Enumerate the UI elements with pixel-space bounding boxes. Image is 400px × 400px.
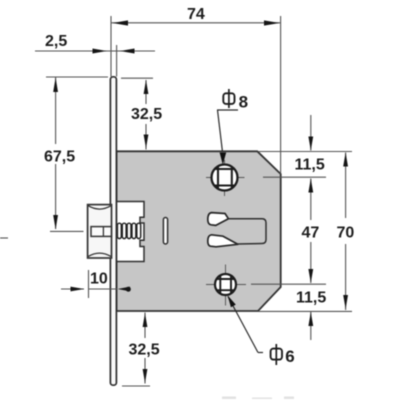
svg-text:6: 6 — [285, 347, 294, 366]
svg-text:67,5: 67,5 — [44, 149, 75, 166]
svg-text:32,5: 32,5 — [131, 106, 162, 123]
svg-text:32,5: 32,5 — [129, 342, 160, 359]
svg-text:8: 8 — [239, 93, 248, 112]
svg-text:70: 70 — [337, 225, 355, 242]
svg-text:2,5: 2,5 — [45, 33, 67, 50]
svg-text:47: 47 — [302, 225, 320, 242]
svg-text:74: 74 — [187, 6, 205, 23]
svg-text:11,5: 11,5 — [295, 157, 325, 174]
svg-text:10: 10 — [90, 271, 108, 288]
svg-text:11,5: 11,5 — [296, 290, 326, 307]
